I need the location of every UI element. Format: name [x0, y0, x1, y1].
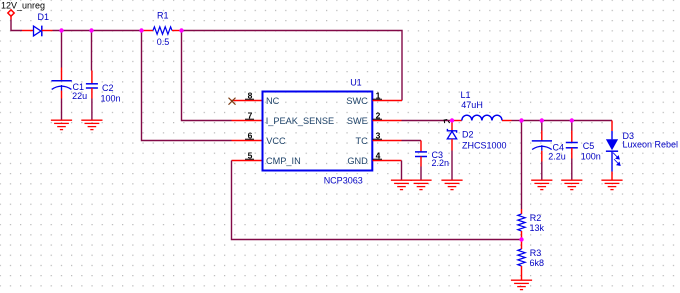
- pin 2 SWE: [347, 111, 402, 127]
- svg-text:0.5: 0.5: [157, 37, 170, 47]
- wire R1 to SWC pin1: [182, 31, 403, 101]
- svg-text:D2: D2: [462, 130, 474, 140]
- svg-text:12V_unreg: 12V_unreg: [1, 1, 45, 11]
- svg-text:6k8: 6k8: [530, 258, 545, 268]
- svg-text:13k: 13k: [530, 223, 545, 233]
- pin 8 NC: [232, 91, 280, 107]
- svg-text:100n: 100n: [101, 94, 121, 104]
- svg-text:L1: L1: [461, 90, 471, 100]
- pin 7 I_PEAK_SENSE: [232, 111, 335, 127]
- pin 6 VCC: [232, 131, 286, 147]
- junction at C2 tap: [89, 28, 93, 32]
- capacitor C3: [415, 141, 449, 168]
- current arrow marker: [444, 120, 450, 124]
- wire pin2 SWE to D2 junction: [402, 120, 453, 122]
- diode D2 ZHCS1000: [447, 121, 506, 151]
- ground under D2: [441, 180, 462, 189]
- pin 1 SWC: [346, 91, 402, 107]
- svg-text:2.2n: 2.2n: [432, 158, 450, 168]
- wire C1 to ground: [61, 99, 63, 121]
- pin 4 GND: [347, 151, 401, 167]
- wire pin5 CMP_IN to divider: [232, 161, 522, 240]
- svg-text:NC: NC: [266, 96, 280, 106]
- resistor R2: [518, 209, 545, 240]
- junction at R1 left: [139, 28, 143, 32]
- svg-text:GND: GND: [347, 156, 368, 166]
- junction R2/R3: [519, 237, 523, 241]
- wire pin4 GND to ground: [401, 161, 403, 181]
- pin 5 CMP_IN: [232, 151, 301, 167]
- svg-text:D1: D1: [38, 12, 50, 22]
- op-amp U1 NCP3063 body: [263, 78, 373, 186]
- pin 3 TC: [356, 131, 402, 147]
- svg-text:R3: R3: [530, 248, 542, 258]
- wire C1 tap down: [61, 31, 63, 68]
- svg-text:C2: C2: [102, 83, 114, 93]
- wire C3 to ground: [420, 167, 422, 181]
- ground under C5: [561, 180, 582, 189]
- svg-text:22u: 22u: [72, 91, 87, 101]
- diode D1: [22, 12, 53, 37]
- junction at C1 tap: [59, 28, 63, 32]
- ground under C3: [410, 180, 431, 189]
- ground under pin4: [391, 180, 412, 189]
- wire junction to C4 C5 and D3: [522, 120, 613, 122]
- resistor R1: [142, 10, 182, 47]
- wire L1 to junction: [512, 120, 522, 122]
- svg-text:C5: C5: [583, 141, 595, 151]
- wire C4 to ground: [541, 162, 543, 181]
- wire top rail D1 to R1: [53, 30, 142, 32]
- svg-text:100n: 100n: [581, 151, 601, 161]
- svg-text:CMP_IN: CMP_IN: [266, 156, 301, 166]
- wire D2 to ground: [451, 151, 453, 181]
- capacitor C2: [86, 71, 121, 104]
- wire C4 tap down: [541, 121, 543, 131]
- wire junction down to R2: [521, 121, 523, 210]
- LED D3 Luxeon Rebel: [606, 121, 678, 181]
- wire R1 right to I_PEAK_SENSE pin7: [182, 31, 232, 121]
- capacitor C4: [532, 131, 566, 162]
- resistor R3: [518, 240, 544, 281]
- wire C5 to ground: [571, 159, 573, 181]
- ground under D3: [601, 180, 622, 189]
- svg-text:ZHCS1000: ZHCS1000: [462, 141, 507, 151]
- svg-text:SWC: SWC: [346, 96, 368, 106]
- junction at R2 tap: [519, 118, 523, 122]
- svg-text:TC: TC: [356, 136, 369, 146]
- junction at D2 tap: [450, 118, 454, 122]
- svg-text:Luxeon Rebel: Luxeon Rebel: [623, 140, 679, 150]
- svg-text:R2: R2: [530, 213, 542, 223]
- wire R1 left to VCC pin6: [142, 31, 232, 141]
- ground under R3: [511, 280, 532, 289]
- svg-text:R1: R1: [157, 10, 169, 20]
- ground under C4: [531, 180, 552, 189]
- junction at C5 tap: [570, 118, 574, 122]
- svg-text:VCC: VCC: [266, 136, 286, 146]
- ground under C2: [81, 120, 102, 129]
- inductor L1: [452, 90, 512, 121]
- svg-text:U1: U1: [350, 78, 362, 88]
- wire C2 tap down: [91, 31, 93, 71]
- svg-text:I_PEAK_SENSE: I_PEAK_SENSE: [266, 116, 334, 126]
- ground under C1: [51, 120, 72, 129]
- wire from port to D1: [11, 20, 22, 31]
- wire pin3 TC to C3: [402, 140, 422, 142]
- svg-text:47uH: 47uH: [461, 100, 483, 110]
- junction at R1 right: [179, 28, 183, 32]
- svg-text:2.2u: 2.2u: [548, 152, 566, 162]
- capacitor C5: [566, 131, 601, 162]
- no-connect cross on pin 8: [229, 98, 236, 105]
- wire C5 tap down: [571, 121, 573, 131]
- svg-text:SWE: SWE: [347, 116, 368, 126]
- wire C2 to ground: [91, 99, 93, 121]
- junction at C4 tap: [540, 118, 544, 122]
- node 12V_unreg port: [1, 1, 45, 20]
- capacitor C1: [51, 68, 87, 102]
- svg-text:NCP3063: NCP3063: [324, 176, 363, 186]
